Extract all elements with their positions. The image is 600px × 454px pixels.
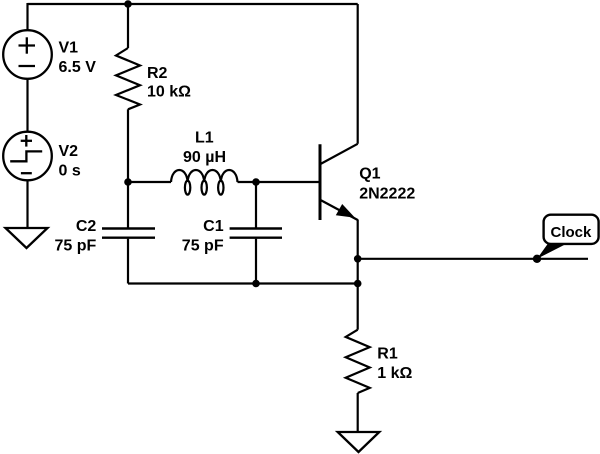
svg-text:0 s: 0 s	[59, 163, 81, 180]
wire L1 left lead	[128, 181, 171, 183]
wire bottom rail	[128, 282, 358, 284]
resistor R1	[346, 330, 370, 393]
svg-text:Q1: Q1	[359, 166, 380, 183]
wire top rail	[28, 3, 358, 5]
svg-text:6.5 V: 6.5 V	[59, 59, 97, 76]
ground GND2	[338, 432, 380, 452]
wire V1 top	[26, 3, 28, 30]
junction bottom rail C1	[252, 280, 260, 288]
svg-text:V2: V2	[59, 143, 79, 160]
svg-text:10 kΩ: 10 kΩ	[147, 84, 191, 101]
junction emitter node	[354, 255, 362, 263]
wire R2 top	[127, 4, 129, 48]
capacitor C1	[230, 229, 282, 238]
wire collector	[357, 4, 359, 144]
wire emitter node down	[357, 259, 359, 284]
wire emitter	[357, 220, 359, 259]
source V1	[3, 30, 52, 79]
wire to R1	[357, 284, 359, 330]
svg-text:R1: R1	[377, 345, 398, 362]
junction node at L1/C1/base	[252, 178, 260, 186]
capacitor C2	[102, 229, 155, 238]
ground GND1	[6, 228, 48, 248]
wire R2 bottom	[127, 109, 129, 182]
transistor Q1	[320, 144, 358, 220]
junction dot top of R2	[124, 0, 132, 8]
svg-text:90 µH: 90 µH	[183, 149, 226, 166]
source V2	[3, 132, 52, 181]
svg-text:L1: L1	[195, 130, 214, 147]
svg-text:C2: C2	[76, 218, 97, 235]
wire V2-ground	[26, 180, 28, 228]
wire L1 right lead	[238, 181, 257, 183]
resistor R2	[116, 48, 140, 109]
wire base	[256, 181, 319, 183]
wire V1-V2	[26, 79, 28, 132]
wire C2 bottom	[127, 239, 129, 284]
wire to clock flag	[358, 258, 588, 260]
svg-text:2N2222: 2N2222	[359, 185, 415, 202]
wire C1 bottom	[255, 239, 257, 284]
wire R1 bottom	[357, 393, 359, 432]
junction node at R2/L1/C2	[124, 178, 132, 186]
svg-text:75 pF: 75 pF	[55, 238, 97, 255]
svg-text:R2: R2	[147, 65, 168, 82]
flag pointer dot	[533, 255, 541, 263]
flag Clock	[537, 215, 599, 259]
svg-text:V1: V1	[59, 39, 79, 56]
svg-text:1 kΩ: 1 kΩ	[377, 365, 412, 382]
junction bottom rail right	[354, 280, 362, 288]
svg-text:C1: C1	[203, 218, 224, 235]
wire C2 top	[127, 182, 129, 228]
inductor L1	[171, 170, 238, 195]
svg-text:Clock: Clock	[551, 224, 593, 241]
svg-text:75 pF: 75 pF	[182, 238, 224, 255]
wire C1 top	[255, 182, 257, 228]
